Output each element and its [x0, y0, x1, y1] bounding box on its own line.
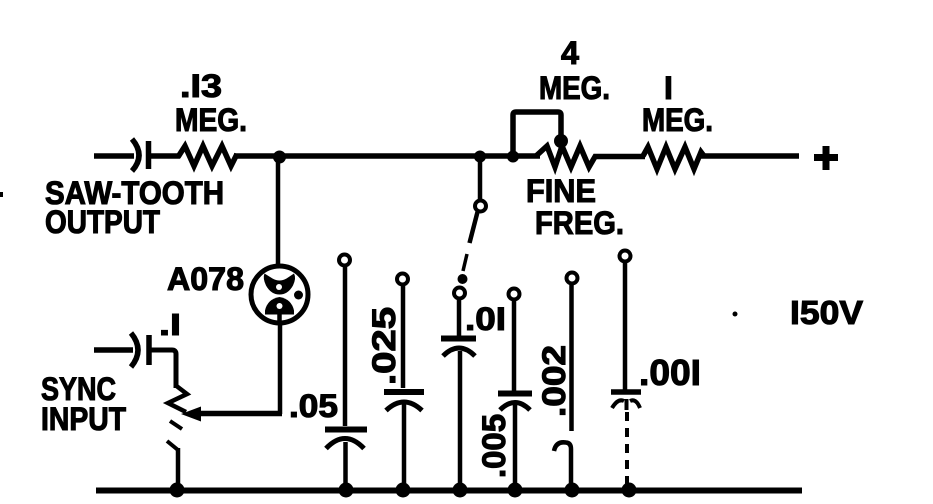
capacitor C .002 lead	[569, 284, 574, 431]
switch pivot circle	[475, 201, 486, 212]
tube right dot electrode	[294, 291, 303, 300]
bus junction dot .001	[622, 483, 637, 498]
svg-text:.005: .005	[476, 414, 512, 478]
wire saw-tooth input lead	[94, 153, 134, 159]
wiper junction dot on pot	[554, 134, 568, 148]
capacitor C-in straight plate	[146, 141, 152, 169]
svg-text:A078: A078	[167, 261, 244, 297]
capacitor C .001 straight plate	[611, 389, 641, 395]
tube V1 envelope circle	[251, 266, 308, 323]
svg-text:.05: .05	[289, 388, 338, 424]
svg-text:MEG.: MEG.	[539, 70, 610, 106]
wire sync cap to corner	[149, 350, 176, 388]
capacitor C .001 up tick	[625, 399, 629, 410]
switch contact dot	[458, 274, 468, 284]
svg-text:.002: .002	[536, 345, 572, 417]
tube bottom electrode	[265, 297, 294, 315]
node A junction dot	[273, 151, 286, 164]
capacitor C .05 lead	[343, 266, 348, 426]
wire sync input lead	[94, 347, 133, 353]
arrow head at sync pot wiper	[181, 407, 201, 422]
svg-text:.025: .025	[366, 307, 402, 385]
svg-text:.0I: .0I	[465, 301, 506, 337]
capacitor C .05 curved plate	[326, 439, 364, 449]
capacitor C .025 curved plate	[386, 402, 422, 411]
capacitor C .001 lead	[623, 262, 628, 390]
capacitor C .005 bottom lead	[513, 405, 518, 488]
capacitor C .05 top terminal circle	[339, 255, 350, 266]
svg-text:.00I: .00I	[639, 352, 701, 393]
svg-text:INPUT: INPUT	[41, 401, 126, 437]
switch blade segment 2 (faint)	[463, 254, 467, 271]
wire to R .13 MEG	[148, 153, 180, 159]
wire node C to pot	[510, 153, 540, 159]
svg-text:MEG.: MEG.	[175, 102, 247, 138]
plus terminal +	[814, 154, 838, 161]
resistor R1 .13 MEG	[178, 146, 237, 166]
switch blade segment 1	[470, 212, 478, 243]
capacitor C .005 lead	[512, 300, 517, 391]
wire pot to R3	[594, 154, 645, 160]
bus junction dot sync pot	[170, 483, 185, 498]
bus junction dot .025	[396, 483, 411, 498]
capacitor C .05 bottom lead	[343, 442, 348, 488]
svg-text:4: 4	[561, 35, 579, 71]
potentiometer R4 sync zigzag	[168, 386, 187, 412]
capacitor C .005 straight plate	[498, 391, 532, 397]
capacitor C .002 curved plate and bottom lead	[554, 442, 571, 488]
capacitor C .05 straight plate	[325, 427, 367, 433]
switch arm lead from node B	[478, 160, 483, 199]
capacitor C-sync straight plate	[146, 335, 152, 365]
edge mark left upper	[0, 192, 3, 197]
bus junction dot .005	[508, 483, 523, 498]
bus junction dot .05	[339, 483, 354, 498]
svg-text:I: I	[664, 70, 673, 106]
svg-text:.I: .I	[159, 307, 181, 342]
wire wiper horizontal to sync pot arrow	[199, 411, 282, 417]
wire tube bottom lead down	[278, 324, 283, 414]
capacitor C .025 top terminal circle	[397, 274, 408, 285]
wire R3 to plus terminal	[701, 153, 799, 159]
bus junction dot .002	[565, 483, 580, 498]
capacitor C .005 top terminal circle	[509, 289, 520, 300]
capacitor C .025 straight plate	[384, 389, 424, 395]
capacitor C .025 lead	[401, 285, 406, 388]
capacitor C .005 curved plate	[500, 403, 530, 411]
wiper loop of 4 MEG pot	[513, 112, 561, 154]
ground bus wire	[96, 488, 802, 494]
speck near 150V	[733, 312, 738, 317]
potentiometer R2 4 MEG	[536, 146, 596, 167]
capacitor C .002 top terminal circle	[567, 273, 578, 284]
tube top electrode	[264, 274, 295, 295]
resistor R3 1 MEG	[643, 147, 704, 169]
capacitor C .001 bottom lead (dashed)	[625, 412, 629, 488]
capacitor C .01 top terminal circle	[454, 288, 465, 299]
capacitor C .01 bottom lead	[458, 351, 463, 488]
capacitor C .01 curved plate	[443, 348, 475, 356]
capacitor C-sync curved plate	[131, 333, 138, 367]
capacitor C .025 bottom lead	[402, 404, 407, 488]
capacitor C .01 lead	[457, 299, 462, 337]
node C junction dot (pot loop)	[507, 151, 519, 163]
bus junction dot .01	[453, 483, 468, 498]
svg-text:MEG.: MEG.	[642, 102, 713, 138]
svg-text:.I3: .I3	[180, 68, 222, 104]
tube bottom stem	[277, 314, 282, 325]
svg-text:OUTPUT: OUTPUT	[45, 204, 160, 240]
wire pot bottom lead	[176, 448, 181, 488]
capacitor C-in curved plate	[132, 139, 139, 171]
capacitor C .001 top terminal circle	[620, 251, 631, 262]
capacitor C .01 straight plate	[441, 336, 476, 342]
capacitor C .001 curved plate (dashed)	[612, 400, 624, 408]
wire R1 to node A	[234, 153, 516, 159]
node B junction dot (switch branch)	[474, 151, 486, 163]
svg-text:I50V: I50V	[790, 294, 863, 331]
svg-text:FINE: FINE	[526, 173, 596, 209]
wire node A down to tube	[276, 158, 281, 284]
svg-text:FREG.: FREG.	[535, 205, 624, 241]
